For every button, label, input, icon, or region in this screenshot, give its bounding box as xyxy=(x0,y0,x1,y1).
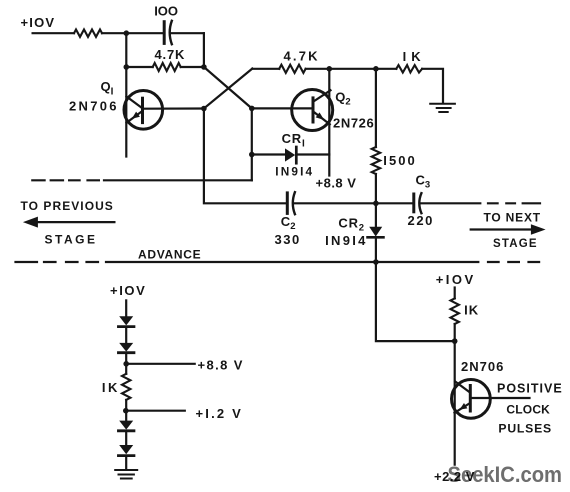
svg-text:SeekIC.com: SeekIC.com xyxy=(448,462,563,487)
node clock collector/1K xyxy=(452,338,458,344)
wire CR1 cathode to +8.8V line xyxy=(296,153,329,155)
svg-text:TO NEXT: TO NEXT xyxy=(484,211,541,225)
svg-text:330: 330 xyxy=(275,232,301,247)
wire advance solid xyxy=(106,261,478,263)
diode D4 xyxy=(118,445,134,456)
svg-text:2N726: 2N726 xyxy=(333,116,374,131)
wire advance dashed left xyxy=(16,261,99,263)
ground top-right xyxy=(430,104,455,112)
wire 1K to clock transistor collector xyxy=(454,324,456,465)
svg-text:Q2: Q2 xyxy=(335,90,350,108)
svg-text:+IOV: +IOV xyxy=(436,272,476,287)
capacitor 100 xyxy=(164,21,204,44)
diode CR2 1N914 xyxy=(368,227,384,238)
capacitor C2 330 xyxy=(287,192,295,214)
svg-text:CRI: CRI xyxy=(282,131,306,150)
diode D2 xyxy=(118,343,134,353)
wire Q2 base node down xyxy=(251,108,253,180)
wire 4.7K right to 1K xyxy=(306,68,397,70)
svg-text:IN9I4: IN9I4 xyxy=(325,233,368,248)
ground bottom-left xyxy=(115,470,137,479)
node trigger C2/C3/1500/CR2 xyxy=(373,201,379,207)
diode CR1 1N914 xyxy=(285,147,296,163)
svg-text:CLOCK: CLOCK xyxy=(506,403,550,417)
svg-text:2N706: 2N706 xyxy=(461,359,504,374)
svg-text:2N706: 2N706 xyxy=(69,99,119,114)
svg-text:+8.8 V: +8.8 V xyxy=(316,176,357,191)
arrow to next stage xyxy=(471,224,546,235)
wire trigger node to CR2 xyxy=(375,203,377,227)
svg-text:4.7K: 4.7K xyxy=(284,49,320,64)
resistor 1K bottom-left xyxy=(122,374,130,400)
node +8.8V divider tap xyxy=(123,361,129,367)
wire D2 to +8.8V node xyxy=(125,353,127,374)
transistor Q2 2N726 xyxy=(292,90,333,131)
wire Q2 collector vertical to +8.8V xyxy=(328,69,330,176)
svg-text:C2: C2 xyxy=(281,214,296,232)
node Q2 base junction xyxy=(249,106,255,112)
wire clock transistor base lead xyxy=(471,397,530,399)
svg-text:+IOV: +IOV xyxy=(21,15,56,30)
node Q2 collector junction xyxy=(327,66,333,72)
svg-text:+8.8 V: +8.8 V xyxy=(198,358,244,373)
wire to left 4.7K xyxy=(126,66,152,68)
svg-text:CR2: CR2 xyxy=(338,216,364,234)
svg-text:STAGE: STAGE xyxy=(493,238,538,250)
node 1500/1K junction xyxy=(373,66,379,72)
svg-text:+I.2 V: +I.2 V xyxy=(196,406,244,421)
wire cap down to 4.7K right end xyxy=(203,33,205,67)
wire to next stage solid xyxy=(420,202,480,204)
wire 1K to ground xyxy=(422,69,443,103)
svg-text:+IOV: +IOV xyxy=(110,283,146,298)
svg-text:IK: IK xyxy=(102,380,120,395)
svg-text:IK: IK xyxy=(403,49,426,64)
node B 4.7K right end xyxy=(201,64,207,70)
wire +10V bottom-right down to 1K xyxy=(454,288,456,299)
wire to previous stage dashed xyxy=(32,179,99,181)
svg-text:TO PREVIOUS: TO PREVIOUS xyxy=(21,199,114,213)
wire to next stage dashed xyxy=(488,202,540,204)
svg-text:IOO: IOO xyxy=(154,4,178,19)
cross-coupling wire Q1 base node to right rail xyxy=(204,69,252,109)
wire Q1 base node down to C2 xyxy=(204,109,287,204)
wire +1.2V tap xyxy=(126,410,185,412)
resistor 4.7K right xyxy=(279,65,305,73)
svg-text:IK: IK xyxy=(464,303,479,318)
svg-text:I500: I500 xyxy=(383,153,417,168)
arrow to previous stage xyxy=(23,217,115,228)
svg-text:POSITIVE: POSITIVE xyxy=(497,382,563,396)
wire bottom-left +10V down xyxy=(125,300,127,316)
transistor Q1 2N706 xyxy=(124,91,163,130)
cross-coupling wire node B to Q2 base node xyxy=(204,67,252,108)
wire trigger node to C3 xyxy=(376,202,414,204)
resistor 4.7K left xyxy=(153,63,181,71)
svg-text:STAGE: STAGE xyxy=(45,233,98,247)
svg-text:220: 220 xyxy=(408,213,435,228)
resistor 1K top xyxy=(396,65,422,72)
resistor 1500 xyxy=(372,147,380,174)
diode D3 xyxy=(118,421,134,431)
wire 4.7K left to node B xyxy=(181,66,204,68)
wire C2 to trigger node xyxy=(294,202,376,204)
node CR1 anode junction xyxy=(249,152,255,158)
capacitor C3 220 xyxy=(414,193,422,213)
node top rail / 100 cap xyxy=(124,30,130,36)
wire +10V feed top-left xyxy=(33,32,74,34)
wire CR1 anode xyxy=(252,153,285,155)
wire resistor to node A xyxy=(102,32,126,34)
wire 1K to +1.2V node xyxy=(125,400,127,421)
node +1.2V divider tap xyxy=(123,408,129,414)
svg-text:PULSES: PULSES xyxy=(498,422,552,436)
node Q1 base junction xyxy=(201,106,207,112)
wire Q1 base xyxy=(143,107,204,109)
wire 1500 to trigger node xyxy=(375,174,377,203)
wire D1 to D2 xyxy=(125,327,127,343)
svg-text:IN9I4: IN9I4 xyxy=(275,165,314,179)
wire Q1 collector-emitter vertical xyxy=(125,67,127,157)
wire top rail to 1500 xyxy=(375,69,377,147)
svg-text:4.7K: 4.7K xyxy=(155,47,186,62)
resistor top-left (collector load Q1) xyxy=(74,30,102,37)
wire advance dashed right xyxy=(488,261,539,263)
wire node A down left 4.7K xyxy=(125,33,127,67)
wire D3 to D4 xyxy=(125,431,127,445)
wire CR2 to advance line xyxy=(375,237,377,262)
wire node A to capacitor 100 xyxy=(126,32,163,34)
node left 4.7K left end xyxy=(124,64,130,70)
transistor Q3 clock 2N706 xyxy=(452,380,491,419)
diode D1 xyxy=(118,316,134,326)
svg-text:C3: C3 xyxy=(416,173,431,191)
wire Q2 base xyxy=(252,107,313,109)
node CR2/advance xyxy=(373,259,379,265)
wire +8.8V tap xyxy=(126,363,195,365)
svg-text:QI: QI xyxy=(101,79,114,98)
svg-text:ADVANCE: ADVANCE xyxy=(138,248,201,262)
wire to previous stage solid xyxy=(104,179,252,181)
wire D4 to ground xyxy=(125,456,127,470)
wire right rail to 4.7K right xyxy=(252,68,279,70)
wire advance node down to clock transistor xyxy=(376,262,455,341)
resistor 1K bottom-right xyxy=(451,298,459,324)
